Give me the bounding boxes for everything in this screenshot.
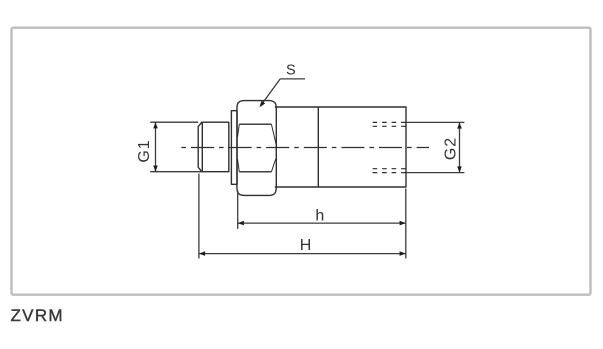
- svg-text:H: H: [300, 237, 312, 254]
- svg-text:G2: G2: [443, 137, 460, 160]
- svg-text:ZVRM: ZVRM: [11, 306, 64, 325]
- svg-text:G1: G1: [136, 139, 153, 162]
- svg-text:S: S: [286, 63, 296, 79]
- svg-text:h: h: [315, 207, 324, 224]
